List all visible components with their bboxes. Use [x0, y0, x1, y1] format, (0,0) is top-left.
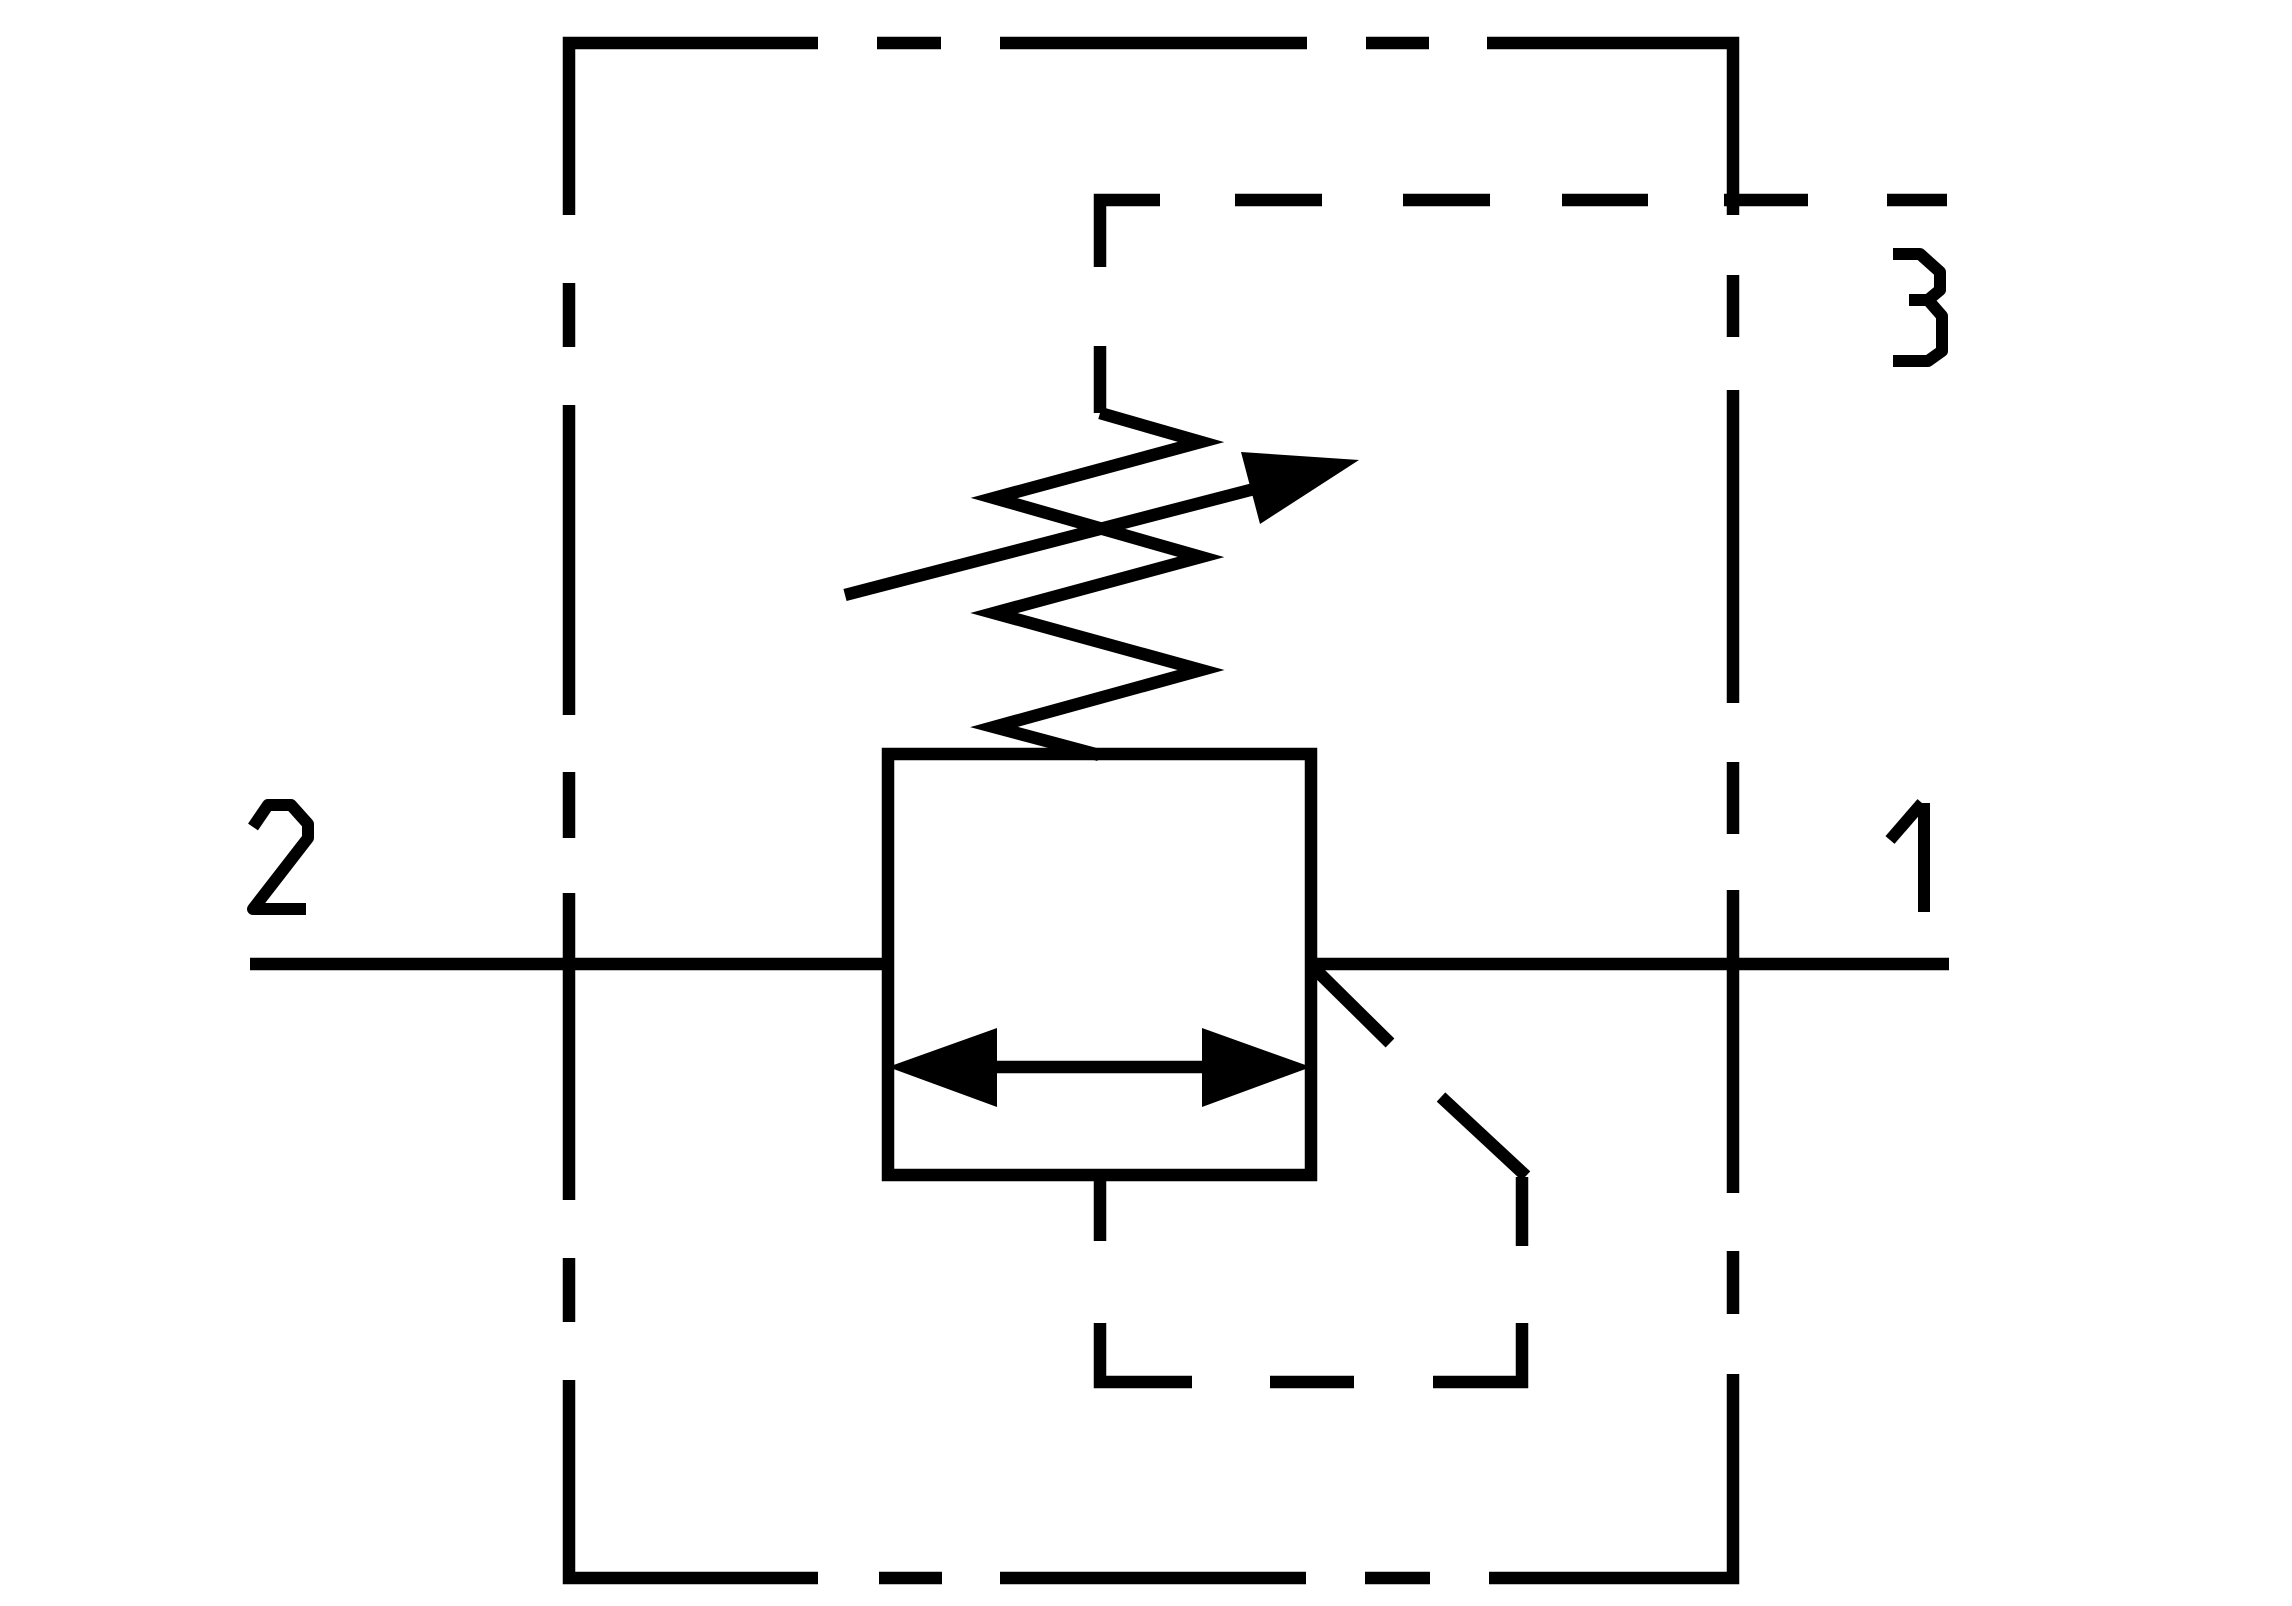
valve body square [888, 754, 1311, 1175]
bottom edge [1365, 1572, 1430, 1585]
port label 2 [253, 805, 308, 909]
wire: main flow line, port 1 side [1311, 958, 1949, 971]
right edge [1727, 275, 1740, 337]
port label 3 [1893, 254, 1942, 361]
port label 1 [1890, 803, 1924, 912]
pilot line to port 3 (dashed) [1100, 200, 1947, 413]
top edge [569, 43, 818, 215]
left edge [563, 1258, 576, 1322]
drain pilot line at valve bottom (dashed loop) [1100, 968, 1526, 1382]
spring (zigzag) above valve [994, 413, 1201, 755]
adjustment arrow through spring [845, 452, 1359, 595]
wire: main flow line, port 2 side [250, 958, 888, 971]
enclosure boundary (dash-dot frame) [569, 43, 1733, 1578]
flow path double-headed arrow inside valve [888, 1028, 1311, 1107]
